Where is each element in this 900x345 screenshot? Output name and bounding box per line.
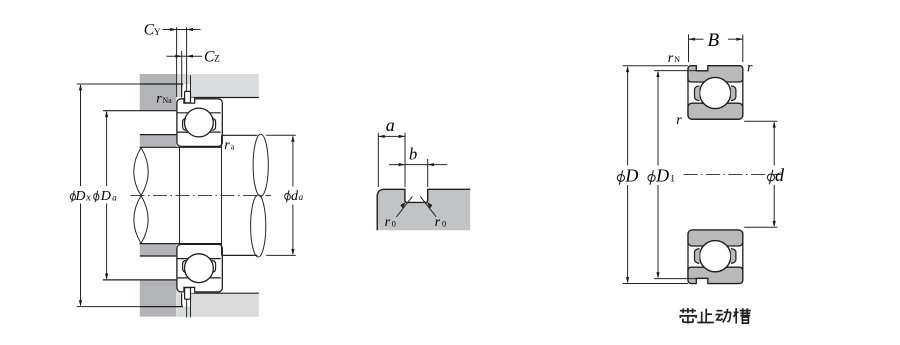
svg-text:a: a	[231, 142, 235, 151]
char zhi	[697, 309, 714, 323]
shaft left break curves	[134, 148, 149, 244]
svg-text:r: r	[668, 51, 674, 66]
label rN	[668, 51, 680, 66]
housing shoulder lower-left block (dark gray)	[103, 280, 176, 317]
svg-text:N: N	[674, 55, 680, 64]
upper inner ring band (gray)	[688, 103, 743, 119]
label phi D	[617, 174, 625, 182]
svg-text:r: r	[224, 138, 230, 153]
svg-text:Z: Z	[214, 54, 220, 64]
raceway shoulder bracket right (lower bearing)	[212, 260, 215, 272]
dimension phi DX vertical line with arrows	[77, 84, 140, 307]
snap ring groove notch (lower bearing)	[184, 287, 195, 293]
CZ dimension line with arrows	[167, 55, 203, 58]
phi d dimension line with arrows	[744, 121, 777, 227]
label r0 right	[435, 215, 447, 230]
caption Chinese: dai zhi dong cao (with snap ring groove) drawn as strokes	[680, 308, 751, 324]
snap ring recess bore line DX (upper) with fillet rNa	[140, 84, 183, 98]
label phi d	[767, 174, 775, 182]
a dimension line with arrows	[378, 135, 405, 138]
svg-text:D: D	[74, 189, 85, 204]
ball lower	[185, 254, 214, 283]
housing upper block (light gray) with snap ring recess	[177, 74, 259, 98]
raceway shoulder bracket left (upper bearing)	[183, 118, 186, 130]
label phi da	[284, 189, 303, 204]
char dai	[680, 308, 696, 324]
B dimension line with arrows	[689, 38, 743, 41]
shaft spacer upper-left block (dark gray)	[140, 135, 177, 148]
r0 leader right with arrow	[420, 196, 436, 216]
CZ extension line left	[181, 51, 183, 87]
shaft seat surface upper line	[140, 146, 223, 148]
label CY	[144, 22, 161, 39]
centerline right figure	[684, 174, 784, 176]
snap ring (lower)	[185, 288, 191, 300]
lower inner ring band (gray)	[688, 230, 743, 246]
svg-text:0: 0	[442, 218, 446, 228]
svg-text:D: D	[655, 165, 669, 185]
svg-text:a: a	[112, 192, 117, 202]
lower section outline	[688, 230, 743, 284]
svg-text:Na: Na	[162, 96, 172, 105]
svg-text:a: a	[299, 192, 304, 202]
groove opening eraser (upper)	[696, 64, 708, 70]
svg-text:D: D	[100, 189, 111, 204]
r0 leader left with arrow	[397, 196, 413, 216]
label phi D1	[648, 165, 676, 185]
raceway bracket left (lower, right figure)	[695, 249, 700, 264]
label ra	[224, 138, 235, 153]
svg-text:0: 0	[392, 218, 396, 228]
upper outer ring band (gray) with snap ring groove	[688, 66, 743, 82]
centerline left figure	[131, 194, 272, 196]
dimension phi Da vertical line with arrows	[105, 111, 108, 280]
b dimension extension line right	[427, 159, 429, 187]
label rNa	[156, 92, 172, 107]
label r0 left	[385, 215, 396, 230]
groove opening eraser (lower)	[696, 279, 708, 285]
raceway shoulder bracket right (upper bearing)	[212, 118, 215, 130]
housing lower block (light gray) with snap ring recess	[177, 292, 259, 317]
svg-text:d: d	[775, 165, 785, 185]
raceway bracket left (upper, right figure)	[695, 86, 700, 101]
a dimension extension lines	[378, 133, 405, 187]
ball lower (right figure)	[700, 241, 731, 272]
label phi DX	[70, 189, 91, 204]
shaft shoulder surface lower line to dimension	[222, 254, 296, 256]
bearing lower: outer ring inner surface line	[178, 277, 221, 279]
char cao	[734, 308, 751, 323]
ball upper	[185, 108, 214, 137]
svg-text:r: r	[747, 60, 753, 75]
lower outer ring band (gray) with snap ring groove	[688, 267, 743, 283]
groove detail block (gray)	[377, 189, 470, 230]
snap ring (upper)	[185, 91, 191, 103]
shaft shoulder face left vertical	[179, 147, 181, 243]
upper section outline	[688, 66, 743, 120]
svg-text:b: b	[409, 145, 417, 164]
svg-text:Y: Y	[154, 27, 161, 37]
bearing lower outline	[177, 244, 222, 292]
CY extension line left	[176, 27, 178, 97]
raceway bracket right (lower, right figure)	[731, 249, 736, 264]
ball upper (right figure)	[700, 77, 731, 108]
raceway bracket right (upper, right figure)	[731, 86, 736, 101]
svg-text:1: 1	[670, 175, 675, 185]
shaft shoulder surface upper line to dimension	[222, 134, 296, 136]
shaft spacer lower-left block (dark gray)	[140, 243, 177, 256]
shaft right break ellipses	[251, 134, 269, 257]
bearing upper: outer ring inner surface line	[178, 112, 221, 114]
svg-text:r: r	[156, 92, 162, 107]
svg-text:r: r	[385, 215, 391, 230]
label phi Da	[93, 189, 117, 204]
bearing lower: inner ring outer surface line	[178, 258, 221, 260]
char dong	[716, 309, 731, 323]
svg-text:B: B	[708, 30, 720, 51]
housing shoulder upper-left block (dark gray) with bore edge	[103, 74, 176, 111]
label CZ	[204, 48, 220, 65]
svg-text:a: a	[386, 115, 395, 135]
svg-text:r: r	[435, 215, 441, 230]
snap ring groove notch (upper bearing)	[184, 98, 195, 104]
snap ring recess bore line DX (lower) with fillet	[140, 293, 183, 306]
svg-text:x: x	[85, 192, 91, 203]
shaft shoulder face right vertical	[221, 135, 223, 255]
bearing upper: inner ring outer surface line	[178, 131, 221, 133]
B dimension extension lines	[689, 35, 743, 63]
svg-text:r: r	[676, 113, 682, 128]
bearing upper outline (outer+inner ring cross-section)	[177, 99, 222, 147]
shaft seat surface lower line	[140, 243, 223, 245]
CY/CZ shared extension line right	[186, 27, 188, 91]
svg-text:D: D	[624, 165, 638, 185]
CY dimension line with arrows	[163, 28, 201, 31]
phi D1 dimension line with arrows	[654, 71, 708, 279]
raceway shoulder bracket left (lower bearing)	[183, 260, 186, 272]
dimension phi da vertical line with arrows	[291, 135, 294, 255]
b dimension line with arrows	[389, 163, 447, 166]
phi D dimension line with arrows	[623, 66, 688, 284]
